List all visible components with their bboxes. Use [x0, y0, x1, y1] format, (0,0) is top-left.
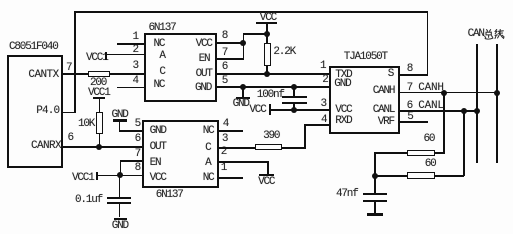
- node junction CANH/bus2: [494, 90, 500, 96]
- U3 pin 4 number: [223, 119, 228, 130]
- wire U2 pin1 NC stub: [117, 43, 144, 45]
- wire VCC1 to U3 pin8: [98, 175, 142, 177]
- power VCC1 (lower left): [72, 173, 94, 184]
- U4 label VRF: [378, 117, 394, 128]
- capacitor C 0.1uf: [75, 195, 102, 206]
- wire OUT row U2 pin6 to TJA TXD: [215, 73, 329, 75]
- U3 label GND pin5: [150, 126, 166, 137]
- U2 pin 7 number: [222, 48, 227, 59]
- wire 60#2 drop: [463, 111, 465, 176]
- U2 label OUT pin6: [196, 69, 212, 80]
- U2 pin 5 number: [222, 76, 227, 87]
- wire VCC row to TJA pin3: [271, 109, 329, 111]
- wire P4.0 stub: [61, 112, 75, 114]
- wire top rail to TJA pin8 S: [74, 11, 428, 13]
- U4 pin 1 number: [320, 61, 325, 72]
- U2 pin 4 number: [133, 76, 138, 87]
- U2 label NC pin1: [154, 39, 165, 50]
- U3 label C pin3: [205, 143, 210, 154]
- resistor R 2.2K: [264, 43, 271, 66]
- U3 label VCC pin8: [150, 173, 166, 184]
- U4 pin 7 number: [407, 83, 412, 94]
- wire CANL from U4 pin6: [398, 110, 478, 112]
- U1 pin CANRX label: [31, 141, 61, 152]
- power VCC (U3 pin2): [259, 174, 274, 176]
- U2 label GND pin5: [195, 83, 211, 94]
- wire U3 pin1 NC stub: [217, 177, 243, 179]
- net label CANL: [418, 101, 444, 112]
- ground symbol (0.1uf): [114, 218, 128, 221]
- node junction CANL/bus1: [474, 108, 480, 114]
- U2 pin 3 number: [133, 61, 138, 72]
- U3 pin 2 number: [221, 147, 226, 158]
- power VCC (2.2K pullup): [260, 13, 276, 24]
- U3 pin 5 number: [135, 119, 140, 130]
- ground symbol (upper): [242, 87, 244, 97]
- wire top rail right drop: [427, 11, 429, 75]
- resistor R 60 (#1): [374, 152, 406, 154]
- wire U2 pin4 NC stub: [117, 87, 144, 89]
- node junction pin8 tie: [240, 40, 246, 46]
- wire GND row U2 pin5 to TJA GND: [215, 86, 329, 88]
- U3 label NC pin4: [203, 126, 214, 137]
- wire 60#1 drop: [443, 93, 445, 154]
- wire R200 to optocoupler U2 pin3: [110, 73, 144, 75]
- U4 pin 5 number: [407, 112, 412, 123]
- wire U2 pin7: [215, 58, 244, 60]
- U1 pin 6 number: [68, 133, 73, 144]
- wire CANH from U4 pin7: [398, 92, 498, 94]
- wire U3 pin2 A jog: [217, 161, 269, 163]
- node junction 60s/47nf: [372, 173, 378, 179]
- U2 label VCC pin8: [196, 39, 212, 50]
- resistor R 390: [255, 144, 282, 151]
- wire RXD jog to TJA pin4: [304, 124, 329, 126]
- U2 label C pin3: [159, 67, 164, 78]
- U4 label VCC: [335, 105, 351, 116]
- U3 pin 8 number: [135, 163, 140, 174]
- wire P4.0 vertical riser to top rail: [74, 11, 76, 113]
- U3 label OUT pin6: [150, 142, 166, 153]
- U2 pin 8 number: [222, 31, 227, 42]
- wire U3 pin4 NC stub: [217, 130, 243, 132]
- U2 pin 1 number: [133, 32, 138, 43]
- IC U1 C8051F040 box: [7, 55, 63, 168]
- U4 label TXD: [335, 70, 351, 81]
- wire RXD riser vertical: [304, 124, 306, 148]
- U4 pin 3 number: [321, 99, 326, 110]
- wire tie jog to VCC column: [243, 33, 268, 35]
- wire TJA pin8 S horizontal: [400, 74, 428, 76]
- net label CANH: [418, 83, 444, 94]
- U3 label NC pin1: [203, 173, 214, 184]
- wire U3 pin7 EN jog: [120, 160, 143, 162]
- capacitor C 100nf: [257, 90, 284, 101]
- U1 pin P4.0 label: [36, 106, 59, 117]
- wire U2 pin2: [105, 54, 144, 56]
- wire 10K to CANRX row: [99, 134, 101, 147]
- power VCC1 symbol (10K pullup): [88, 88, 110, 99]
- U2 label A pin2: [159, 51, 164, 62]
- ground symbol (U3 pin5): [112, 110, 128, 121]
- wire CAN bus line 1: [476, 44, 478, 163]
- node junction 10K/CANRX: [96, 144, 102, 150]
- U4 pin 4 number: [321, 115, 326, 126]
- U4 label GND: [334, 79, 350, 90]
- node junction pin8/EN/cap: [117, 172, 123, 178]
- wire R390 to RXD riser: [282, 147, 305, 149]
- capacitor C 47nf: [336, 189, 358, 200]
- U2 pin 2 number: [133, 45, 138, 56]
- U4 label CANH: [373, 86, 395, 97]
- node junction 2.2K/OUT: [264, 71, 270, 77]
- U3 label EN pin7: [150, 158, 161, 169]
- wire VRF stub U4 pin5: [398, 121, 428, 123]
- U4 pin 8 number: [407, 64, 412, 75]
- U2 label NC pin4: [154, 80, 165, 91]
- U3 pin 1 number: [221, 163, 226, 174]
- U4 pin 2 number: [322, 75, 327, 86]
- IC U4 TJA1050T box: [329, 66, 400, 134]
- node junction GND symbol drop: [240, 84, 246, 90]
- resistor R 200: [88, 71, 110, 77]
- power VCC1 to U2 pin2: [86, 53, 108, 64]
- node junction VCC column / tie: [264, 31, 270, 37]
- ground symbol (47nf): [367, 213, 383, 216]
- net label CAN bus (CAN total line): [468, 29, 484, 40]
- U4 pin 6 number: [407, 101, 412, 112]
- wire CANTX from U1 to R 200: [61, 73, 89, 75]
- U4 label S: [388, 69, 393, 80]
- IC U2 6N137 (upper) box: [144, 33, 217, 102]
- power VCC (TJA pin3): [249, 105, 265, 116]
- U3 pin 7 number: [135, 149, 140, 160]
- wire U2 pin8: [215, 42, 244, 44]
- U2 pin 6 number: [222, 62, 227, 73]
- wire 60#1 left drop: [374, 152, 376, 176]
- U3 pin 3 number: [222, 134, 227, 145]
- U3 pin 6 number: [135, 134, 140, 145]
- U1 pin 7 number: [66, 63, 71, 74]
- wire 2.2K to OUT row: [266, 66, 268, 74]
- U1 pin CANTX label: [28, 70, 58, 81]
- wire U3 pin3 to R390: [217, 147, 256, 149]
- wire CANRX row from U1 to U3 pin6: [61, 146, 143, 148]
- wire CAN bus line 2: [496, 44, 498, 163]
- IC U3 6N137 (lower) box: [142, 120, 218, 189]
- resistor R 10K: [96, 112, 103, 134]
- node junction CANH/60#1: [441, 90, 447, 96]
- U4 label CANL: [373, 105, 395, 116]
- U4 label RXD: [335, 116, 351, 127]
- U3 label A pin2: [205, 158, 210, 169]
- U2 label EN pin7: [199, 54, 210, 65]
- node junction CANL/60#2: [461, 108, 467, 114]
- wire pin8/pin7 tie vertical: [243, 33, 245, 59]
- resistor R 60 (#2): [374, 175, 406, 177]
- wire U3 pin5: [119, 130, 143, 132]
